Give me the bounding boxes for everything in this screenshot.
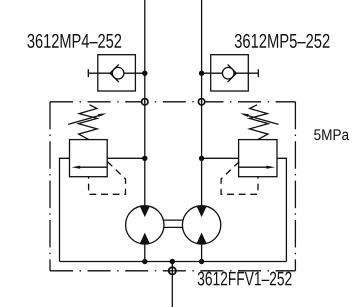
- wire: right bus motor-to-bottom: [201, 244, 203, 262]
- label 3612MP5-252: [235, 34, 330, 48]
- motor shaft coupling upper line: [164, 219, 183, 221]
- wire: tank drain line: [171, 262, 173, 307]
- RV2 pilot line (dashed): [221, 162, 258, 195]
- relief valve RV1 body: [70, 140, 108, 177]
- wire: RV2 left port to bus: [202, 157, 239, 159]
- wire: CV1 horizontal line: [88, 72, 145, 74]
- RV2 flow arrow: [239, 166, 269, 168]
- wire: RV1 right port to bus: [107, 157, 145, 159]
- wire: right supply bus vertical: [201, 0, 203, 206]
- port A circle on border: [142, 99, 148, 105]
- node: junction dot CV1-bus: [142, 71, 147, 76]
- wire: RV1 left port to drop line: [60, 158, 70, 261]
- motor M1 top triangle: [140, 206, 150, 217]
- check valve CV2 body: [211, 55, 249, 91]
- RV1 spring: [78, 105, 97, 140]
- RV2 adjustment arrow: [243, 114, 278, 124]
- manifold enclosure border left (dash-dot): [49, 102, 51, 271]
- port T circle on border: [169, 267, 176, 274]
- CV1 seat: [110, 64, 119, 82]
- RV1 pilot line (dashed): [89, 162, 126, 195]
- port T cross line: [168, 270, 176, 272]
- port B circle on border: [198, 99, 204, 105]
- port B center dot: [201, 101, 203, 103]
- manifold enclosure border top (dash-dot): [50, 101, 295, 103]
- motor M2 bottom triangle: [196, 233, 206, 244]
- check valve CV1 body: [98, 55, 136, 91]
- CV1 ball: [112, 67, 124, 79]
- motor M2 circle: [182, 206, 220, 244]
- RV1 adjustment arrow: [68, 114, 103, 124]
- motor M1 circle: [126, 206, 164, 244]
- label 3612MP4-252: [27, 34, 121, 48]
- node: junction dot M2-bottom: [199, 259, 204, 264]
- wire: RV2 right port to drop line: [277, 158, 286, 261]
- RV1 flow arrow: [78, 166, 107, 168]
- CV2 seat: [228, 64, 237, 82]
- wire: bottom return line: [60, 261, 287, 263]
- motor M2 top triangle: [196, 206, 206, 217]
- CV2 ball: [222, 67, 234, 79]
- label 3612FFV1-252: [198, 272, 292, 286]
- node: junction dot RV2-bus: [199, 156, 204, 161]
- motor M1 bottom triangle: [140, 233, 150, 244]
- node: junction dot tank-bottom: [170, 259, 175, 264]
- CV1 plugged port tick: [87, 69, 89, 77]
- manifold enclosure border right (dash-dot): [294, 102, 296, 271]
- RV2 spring: [250, 105, 269, 140]
- node: junction dot M1-bottom: [142, 259, 147, 264]
- wire: left bus motor-to-bottom: [144, 244, 146, 262]
- relief valve RV2 body: [239, 140, 277, 177]
- wire: CV2 horizontal line: [202, 72, 259, 74]
- manifold enclosure border bottom (dash-dot): [50, 270, 295, 272]
- label 5MPa: [314, 129, 349, 140]
- port A center dot: [144, 101, 146, 103]
- wire: left supply bus vertical: [144, 0, 146, 206]
- motor shaft coupling lower line: [164, 226, 183, 228]
- node: junction dot CV2-bus: [199, 71, 204, 76]
- CV2 plugged port tick: [257, 69, 259, 77]
- node: junction dot RV1-bus: [142, 156, 147, 161]
